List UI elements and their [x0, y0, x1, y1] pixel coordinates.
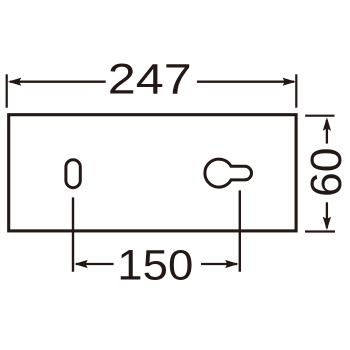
- dimension 247: right arrow: [283, 78, 297, 86]
- dimension 60: bottom extension tick: [305, 230, 335, 232]
- dimension 60: top line segment: [326, 120, 328, 144]
- dimension 150: left line segment: [76, 263, 114, 265]
- dimension 150: left leader line: [72, 197, 74, 271]
- dimension 247: right extension tick: [295, 74, 297, 107]
- dimension 60: bottom arrow: [323, 217, 331, 231]
- keyhole mounting slot: [205, 159, 252, 187]
- dimension 150: right leader line: [239, 190, 241, 271]
- dimension 247: right line segment: [197, 81, 294, 83]
- dimension 150: right arrow: [225, 260, 239, 268]
- svg-text:60: 60: [302, 148, 350, 198]
- dimension 247: left extension tick: [6, 74, 8, 107]
- dimension 150: right line segment: [201, 263, 237, 265]
- dimension 247: left arrow: [8, 78, 21, 86]
- left oval mounting slot: [66, 160, 80, 188]
- svg-text:150: 150: [117, 241, 193, 289]
- svg-text:247: 247: [108, 55, 192, 103]
- dimension 60: top extension tick: [305, 115, 334, 117]
- dimension 150: left arrow: [74, 260, 88, 268]
- dimension 247: left line segment: [10, 81, 106, 83]
- dimension 60: bottom line segment: [326, 202, 328, 228]
- dimension 60: top arrow: [323, 117, 331, 131]
- plate outline rectangle: [9, 115, 296, 231]
